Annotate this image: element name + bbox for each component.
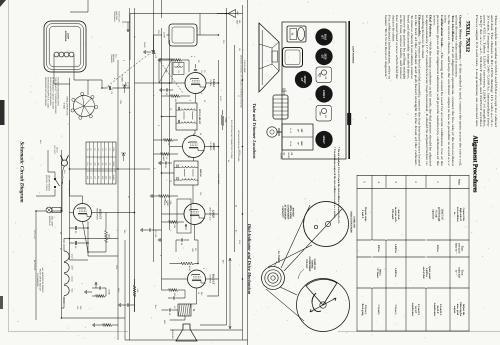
svg-text:SPEAKER: SPEAKER: [171, 329, 174, 339]
svg-text:booklet “RCA Victor Receiver A: booklet “RCA Victor Receiver Alignment.”: [384, 15, 388, 80]
svg-text:117V: 117V: [115, 265, 118, 270]
svg-text:C3B: C3B: [119, 100, 122, 104]
junction dots (tube row): [161, 82, 220, 264]
svg-text:75X11, 75X12: 75X11, 75X12: [465, 21, 471, 53]
on-off switch S1: [45, 175, 63, 192]
svg-text:C3: C3: [290, 153, 293, 157]
svg-text:2nd I-F: 2nd I-F: [436, 305, 439, 314]
wires: lower bus: [161, 59, 163, 61]
svg-text:Test-Oscillator.—For all align: Test-Oscillator.—For all alignment opera…: [451, 15, 455, 166]
svg-text:.01: .01: [164, 166, 167, 170]
tone capacitor C11: [162, 308, 179, 316]
svg-text:Tube and Trimmer Locations: Tube and Trimmer Locations: [252, 103, 257, 159]
svg-text:25: 25: [199, 133, 202, 135]
svg-text:1: 1: [436, 181, 439, 183]
speaker (chassis drawing): [259, 23, 279, 92]
svg-text:VC: VC: [173, 306, 176, 309]
svg-text:procedures given in the alignm: procedures given in the alignment tabula…: [436, 15, 440, 167]
svg-text:lator to—: lator to—: [455, 243, 458, 254]
svg-text:A-B: A-B: [93, 163, 96, 167]
svg-text:L2: L2: [105, 149, 108, 151]
tube V4 50L6GT output: [188, 270, 215, 288]
svg-text:LOOP: LOOP: [163, 32, 166, 39]
svg-text:C13: C13: [222, 40, 225, 43]
svg-text:L5 (osc.): L5 (osc.): [364, 305, 367, 315]
label: cord on tuning condenser pulley: [298, 257, 316, 279]
svg-text:C5: C5: [203, 70, 206, 72]
svg-text:ALL HEATERS IN SERIES: ALL HEATERS IN SERIES: [41, 268, 44, 293]
wires: tube row connections: [135, 83, 219, 320]
svg-text:L4 and L3: L4 and L3: [439, 304, 442, 316]
svg-text:NOT-MEASURED WITH U.P. FUSED: NOT-MEASURED WITH U.P. FUSED: [237, 130, 240, 162]
svg-text:0V: 0V: [227, 160, 230, 163]
svg-text:T1: T1: [192, 309, 195, 312]
svg-text:C8: C8: [194, 248, 197, 250]
svg-text:C14: C14: [115, 54, 118, 57]
svg-text:30: 30: [74, 231, 77, 234]
dial cord runs: [266, 205, 342, 321]
svg-text:13.5: 13.5: [108, 176, 111, 180]
svg-text:12SQ7 det.-a.v.c.-a.f., 50L6GT: 12SQ7 det.-a.v.c.-a.f., 50L6GT output, a…: [479, 15, 483, 127]
svg-text:35Z5 GT: 35Z5 GT: [99, 209, 102, 220]
svg-text:1,600 kc: 1,600 kc: [425, 268, 428, 278]
resistor R12: [93, 323, 118, 327]
alignment table: [357, 176, 469, 332]
svg-text:T3: T3: [169, 180, 172, 182]
antenna symbol: [217, 10, 239, 18]
capacitor C4: [160, 88, 173, 96]
svg-text:to—: to—: [453, 212, 456, 217]
tube V5 35Z5GT rectifier: [74, 204, 92, 222]
svg-text:BLU: BLU: [154, 305, 157, 309]
wire: left vertical rail: [130, 14, 243, 61]
capacitor C12: [119, 303, 135, 307]
svg-text:LOOP ANTENNA: LOOP ANTENNA: [351, 46, 354, 64]
antenna trimmer box C1 (chassis): [316, 106, 332, 122]
voltages note: [44, 77, 59, 114]
svg-text:“A” Band: “A” Band: [376, 267, 379, 278]
svg-text:12SQ7: 12SQ7: [303, 75, 306, 84]
svg-text:7: 7: [152, 95, 155, 96]
svg-text:200: 200: [165, 69, 168, 73]
svg-text:12SA7: 12SA7: [322, 135, 325, 144]
svg-text:max. peak: max. peak: [456, 304, 459, 316]
svg-text:Ant. lead: Ant. lead: [397, 209, 400, 220]
svg-text:GT: GT: [320, 35, 323, 39]
svg-text:to the receiver chassis, and k: to the receiver chassis, and keep the os…: [447, 15, 451, 167]
svg-text:to the front, remove knobs, an: to the front, remove knobs, and remove: [399, 15, 403, 80]
wire: vertical feed x169: [70, 168, 150, 170]
svg-text:L3: L3: [101, 149, 104, 151]
svg-text:TO EXT. ANT.: TO EXT. ANT.: [118, 11, 121, 23]
svg-text:K-6000: K-6000: [121, 75, 124, 83]
wires: small loop: [154, 35, 219, 52]
label: 3 1/2 turns: [274, 251, 280, 267]
svg-text:C2A: C2A: [157, 30, 160, 34]
label: all heaters: [36, 268, 44, 293]
svg-text:8.2: 8.2: [97, 176, 100, 179]
svg-text:12SA7: 12SA7: [212, 79, 215, 87]
power plug: [53, 146, 69, 177]
svg-text:L1 L2: L1 L2: [289, 128, 292, 134]
svg-text:600 kc: 600 kc: [379, 269, 382, 276]
svg-text:C2: C2: [154, 56, 157, 59]
svg-text:2.5: 2.5: [93, 176, 96, 179]
wires: loop to converter: [54, 68, 102, 95]
tube socket 35Z5GT (chassis): [315, 48, 332, 65]
IF transformer T3 (2nd I-F): [174, 161, 202, 185]
table footnote: [333, 147, 340, 224]
heading: Alignment Procedures: [472, 136, 479, 194]
svg-text:90V: 90V: [200, 292, 203, 296]
svg-text:3: 3: [153, 168, 156, 169]
resistor R13 (rail dropper): [221, 110, 227, 130]
svg-text:L2 and L1: L2 and L1: [417, 304, 420, 316]
svg-text:2: 2: [414, 181, 417, 183]
svg-text:5: 5: [363, 181, 366, 183]
tube V1 12SA7 converter: [185, 73, 215, 94]
svg-text:† Use minimum output of the te: † Use minimum output of the test oscilla…: [333, 147, 336, 219]
gang condenser C3 section: [102, 86, 130, 95]
svg-text:Schematic Circuit Diagram: Schematic Circuit Diagram: [19, 141, 25, 202]
dial lamp: [46, 207, 61, 227]
svg-text:5: 5: [157, 125, 160, 126]
svg-text:L1: L1: [108, 149, 111, 151]
svg-text:DIAL LAMP: DIAL LAMP: [51, 216, 54, 227]
svg-text:to—: to—: [455, 270, 458, 275]
label K-6000: [121, 75, 124, 83]
svg-text:3 and 4.: 3 and 4.: [361, 210, 364, 219]
svg-text:chassis to the cabinet.: chassis to the cabinet.: [391, 15, 395, 42]
svg-text:following for: following for: [459, 302, 462, 317]
svg-text:1ST: 1ST: [300, 128, 303, 133]
arrow markers on rails: [121, 85, 127, 161]
tube socket 50L6GT (chassis): [315, 28, 332, 45]
resistor R4: [154, 153, 179, 162]
svg-text:C1 (ant.): C1 (ant.): [377, 305, 380, 315]
ground symbols row: [150, 58, 161, 242]
svg-text:12SK7 I-F: 12SK7 I-F: [440, 209, 443, 221]
svg-text:ON-OFF SWITCH: ON-OFF SWITCH: [48, 175, 51, 192]
svg-text:0.8: 0.8: [90, 176, 93, 179]
svg-text:L4: L4: [133, 36, 136, 38]
svg-text:13.5: 13.5: [105, 176, 108, 180]
gang dash to oscillator: [159, 60, 183, 93]
oscillator trimmer box C3 (chassis): [316, 67, 332, 83]
svg-text:Dial-Indicator and Drive Mecha: Dial-Indicator and Drive Mechanism: [247, 223, 252, 295]
svg-text:GANG: GANG: [143, 42, 146, 48]
svg-text:1-2: 1-2: [101, 163, 104, 166]
svg-text:T1: T1: [86, 148, 89, 150]
wire: right vertical rails: [125, 240, 248, 340]
svg-text:C17 110: C17 110: [154, 230, 157, 237]
svg-text:RED: RED: [163, 320, 166, 325]
svg-text:test-oscillator: test-oscillator: [456, 207, 459, 223]
intro text lines (top of column): [475, 15, 498, 127]
diode detector box (12SQ7): [177, 199, 191, 233]
svg-text:L5: L5: [93, 149, 96, 151]
note text along rail: [240, 55, 243, 109]
trimmer C14 label block: [110, 54, 118, 63]
extra wire stubs left edge: [70, 0, 162, 196]
tone control network: [85, 282, 111, 298]
filter resistor R10: [105, 230, 111, 242]
svg-text:75V: 75V: [199, 192, 202, 196]
svg-text:60 CYCLES: 60 CYCLES: [33, 260, 36, 271]
svg-text:C3 (osc.): C3 (osc.): [394, 305, 397, 315]
svg-text:OSCILLATOR COIL: OSCILLATOR COIL: [66, 96, 69, 116]
svg-text:radio dial: radio dial: [458, 267, 461, 278]
capacitor C7: [159, 161, 172, 169]
svg-text:bezel and dial assembly descri: bezel and dial assembly described above,: [406, 15, 410, 79]
resistor R1: [162, 59, 190, 73]
svg-text:3: 3: [202, 268, 205, 269]
svg-text:Alignment Procedures: Alignment Procedures: [472, 136, 479, 194]
svg-text:455 kc: 455 kc: [436, 245, 439, 253]
svg-text:For additional information, re: For additional information, refer to: [388, 15, 392, 80]
svg-text:VOLTAGES MEASURED WITH: VOLTAGES MEASURED WITH: [57, 77, 60, 106]
svg-text:2: 2: [122, 60, 125, 61]
small loop box (dashed): [163, 24, 198, 46]
extra rail y370: [129, 8, 131, 340]
svg-text:12SQ7: 12SQ7: [212, 210, 215, 219]
svg-text:50: 50: [74, 246, 77, 249]
tuning condenser pulley: [297, 279, 350, 332]
wires: rectifier section: [70, 180, 135, 260]
oscillator coil boxes: [159, 59, 184, 83]
svg-text:T2: T2: [169, 108, 172, 110]
svg-text:160: 160: [238, 20, 241, 23]
svg-text:in the feet of the cabinet and: in the feet of the cabinet and pull beze…: [414, 15, 418, 166]
svg-text:transformer: transformer: [411, 303, 414, 317]
svg-text:30 watts. Frequency range 540–: 30 watts. Frequency range 540–1,600 kc. …: [486, 15, 490, 127]
svg-text:EXT. ANT. MAY BE CONNECTED TO: EXT. ANT. MAY BE CONNECTED TO GND: [230, 120, 233, 159]
svg-text:3-4: 3-4: [105, 163, 108, 166]
divider line between halves: [247, 0, 249, 345]
capacitor C5 coupling: [194, 64, 197, 73]
svg-text:30V: 30V: [123, 230, 126, 234]
diode load resistors: [162, 221, 185, 229]
tube socket 12SQ7 (chassis, lower row): [295, 71, 312, 88]
svg-text:SHOWN: SHOWN: [292, 208, 295, 217]
svg-text:R12: R12: [79, 306, 82, 309]
svg-text:210: 210: [86, 176, 89, 179]
svg-text:high side of: high side of: [459, 208, 462, 221]
svg-text:TONE: TONE: [108, 289, 111, 295]
svg-text:0.1 mf.: 0.1 mf.: [435, 210, 438, 218]
svg-text:LOOP: LOOP: [67, 33, 70, 40]
misc value labels: [33, 20, 241, 325]
heater string coils: [64, 244, 74, 304]
wires: power: [36, 150, 63, 320]
svg-text:and dial. The chassis is RC-10: and dial. The chassis is RC-1050. Rating…: [490, 15, 494, 127]
svg-text:115 V.: 115 V.: [56, 147, 59, 153]
filter capacitor C15: [70, 226, 89, 234]
svg-text:12SK7: 12SK7: [212, 143, 215, 151]
svg-text:1: 1: [169, 230, 172, 231]
label: shown with gang condenser at maximum capacity: [281, 205, 294, 220]
cathode resistor R8 + bypass: [162, 289, 186, 300]
svg-text:end of dial: end of dial: [422, 267, 425, 279]
svg-text:in series with: in series with: [394, 207, 397, 222]
svg-text:12SQ7: 12SQ7: [71, 276, 74, 282]
svg-text:A.V.C.: A.V.C.: [219, 96, 222, 102]
svg-text:C3: C3: [324, 77, 327, 80]
component resistance table: [86, 142, 116, 184]
svg-text:L4: L4: [97, 149, 100, 151]
svg-text:Dial Pointer.—With the tuning: Dial Pointer.—With the tuning condenser …: [429, 15, 433, 167]
wire: rail y382: [117, 60, 119, 340]
svg-text:5: 5: [200, 93, 203, 94]
svg-text:Repeat steps: Repeat steps: [364, 207, 367, 221]
svg-text:Power output 0.9 watt max. Loo: Power output 0.9 watt max. Loop antenna;…: [475, 15, 479, 127]
svg-text:12SA7: 12SA7: [71, 253, 74, 258]
resistor R2: [162, 95, 191, 103]
IF transformer T2 (1st I-F): [176, 103, 201, 130]
resistor R3: [154, 139, 179, 147]
svg-text:25: 25: [235, 205, 238, 207]
svg-text:.05: .05: [238, 48, 241, 51]
rail labels: [219, 60, 246, 233]
svg-text:P-S: P-S: [86, 163, 89, 167]
label 35Z5GT: [96, 208, 102, 220]
caption: Schematic Circuit Diagram: [19, 141, 25, 202]
svg-text:To remove chassis from cabinet: To remove chassis from cabinet, remove: [410, 15, 414, 80]
label: oscillator coil: [62, 96, 68, 116]
coupling capacitor C9: [176, 238, 189, 252]
svg-text:150: 150: [173, 293, 176, 297]
tuning shaft on chassis front: [267, 127, 282, 137]
svg-text:35Z5: 35Z5: [323, 53, 326, 60]
svg-text:121V: 121V: [117, 288, 120, 293]
svg-text:Calibration Scale.—The tuning: Calibration Scale.—The tuning dial canno…: [440, 15, 444, 167]
svg-text:L6: L6: [90, 149, 93, 151]
tube V2 12SK7 I-F amplifier: [183, 136, 216, 158]
tube V3 12SQ7 detector/AF: [184, 204, 215, 225]
svg-text:Adjust the: Adjust the: [462, 304, 465, 316]
svg-text:grid through: grid through: [438, 207, 441, 222]
body text column: [384, 15, 462, 167]
gang condenser on chassis: [283, 48, 303, 68]
svg-text:600 kc: 600 kc: [377, 245, 380, 253]
caption: Dial-Indicator and Drive Mechanism: [247, 223, 252, 295]
svg-text:remove the pointer by pulling: remove the pointer by pulling straight: [403, 15, 407, 79]
svg-text:These models are similar to 65: These models are similar to 65X1 and 65X…: [494, 15, 498, 127]
trimmer callouts on chassis: [280, 153, 294, 161]
svg-text:6: 6: [189, 100, 192, 101]
speaker (schematic): [171, 324, 197, 341]
svg-text:assembling the bezel to the ca: assembling the bezel to the cabinet.: [421, 15, 425, 59]
svg-text:.05: .05: [180, 243, 183, 247]
svg-text:four round head screws which h: four round head screws which hold the: [395, 15, 399, 80]
svg-text:test-oscil-: test-oscil-: [458, 243, 461, 254]
svg-text:100 mmf.: 100 mmf.: [391, 209, 394, 220]
svg-text:OHMS: OHMS: [112, 175, 115, 181]
tube socket 12SK7 (chassis): [315, 85, 332, 102]
svg-text:1: 1: [193, 56, 196, 57]
extra junction dots: [35, 13, 243, 319]
svg-text:BLK: BLK: [39, 140, 42, 144]
svg-text:C6: C6: [197, 60, 200, 62]
svg-text:10K: 10K: [174, 99, 177, 103]
svg-text:output: output: [453, 306, 456, 313]
IF transformer cans on chassis: [282, 124, 313, 150]
model title 75X11, 75X12: [465, 21, 471, 53]
gang condenser C2: [144, 50, 157, 59]
svg-text:47: 47: [199, 222, 202, 224]
knob shaft pulley: [262, 267, 285, 290]
svg-text:3: 3: [394, 181, 397, 183]
svg-text:uency 455 kc. Tubes: 12SA7 con: uency 455 kc. Tubes: 12SA7 converter, 12…: [483, 15, 487, 127]
oscillator coil L5 (terminal view): [71, 92, 98, 119]
chassis outline: [282, 22, 346, 159]
svg-text:1.2K: 1.2K: [136, 289, 139, 294]
svg-text:Quiet-point: Quiet-point: [428, 266, 431, 279]
label: cord on indicator drum: [350, 212, 356, 233]
svg-text:2.2: 2.2: [165, 157, 168, 161]
filter capacitor C16: [70, 241, 89, 249]
svg-text:8: 8: [113, 78, 116, 79]
svg-text:Disassembly.—To remove bezel a: Disassembly.—To remove bezel and dial as…: [418, 15, 422, 167]
wire: loop feed to left rail: [199, 14, 201, 36]
svg-text:47K: 47K: [173, 225, 176, 229]
loop antenna L6: [44, 21, 86, 72]
svg-text:GT: GT: [320, 55, 323, 59]
dial indicator drum: [304, 202, 349, 247]
svg-text:12SK7: 12SK7: [322, 90, 325, 99]
svg-text:1-4: 1-4: [90, 163, 93, 166]
svg-text:A.V.C. BUS: A.V.C. BUS: [217, 174, 220, 184]
svg-text:C1: C1: [324, 115, 327, 118]
wire: top rails: [135, 5, 243, 340]
chassis drawing: loop antenna bar: [347, 21, 354, 159]
svg-text:L5: L5: [177, 71, 180, 74]
svg-text:B+: B+: [235, 230, 238, 233]
svg-text:50L6: 50L6: [71, 288, 74, 292]
electrolytic capacitor can on chassis: [273, 89, 288, 119]
svg-text:capacitor: capacitor: [432, 209, 435, 220]
svg-text:1st I-F: 1st I-F: [414, 306, 417, 314]
caption: Tube and Trimmer Locations: [252, 103, 257, 159]
svg-text:L3 L4: L3 L4: [289, 141, 292, 147]
capacitor C17: [141, 228, 162, 232]
svg-text:Connect the: Connect the: [462, 208, 465, 222]
svg-text:ANT: ANT: [319, 111, 322, 116]
pointer travel arrow line: [229, 258, 231, 329]
svg-text:1ST I-F 455 KC: 1ST I-F 455 KC: [198, 109, 201, 125]
svg-text:4: 4: [377, 181, 380, 183]
grid resistor R7: [170, 262, 195, 271]
svg-text:85V: 85V: [222, 260, 225, 264]
svg-text:CORD ON: CORD ON: [313, 259, 316, 270]
tube socket 12SA7 (chassis): [315, 131, 332, 148]
svg-text:2ND I-F: 2ND I-F: [199, 169, 202, 177]
svg-text:action.: action.: [444, 15, 448, 24]
output transformer T1 (schematic): [178, 304, 195, 316]
svg-text:Steps: Steps: [458, 179, 461, 185]
gang coupling dashes: [108, 54, 149, 86]
svg-text:COIL: COIL: [112, 147, 115, 151]
wire: B- bus: [62, 150, 126, 318]
svg-text:VOL.: VOL.: [169, 201, 172, 206]
svg-text:Output Meter Alignment.—If thi: Output Meter Alignment.—If this method i…: [458, 15, 462, 166]
svg-text:C14 110 MMF: C14 110 MMF: [243, 60, 246, 73]
svg-text:Turn: Turn: [461, 270, 464, 276]
resistor R9 (B+ dropper): [133, 279, 139, 312]
svg-text:1,600 kc: 1,600 kc: [394, 268, 397, 278]
output transformer on chassis: [287, 26, 306, 42]
svg-text:and turn the receiver volume c: and turn the receiver volume control to …: [455, 15, 459, 78]
